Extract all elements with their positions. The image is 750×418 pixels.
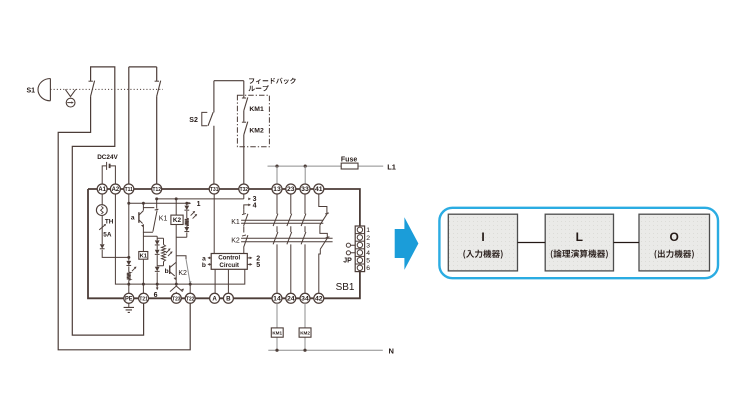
svg-text:2: 2 — [366, 235, 370, 242]
svg-text:N: N — [389, 346, 394, 355]
svg-text:K2: K2 — [178, 270, 187, 277]
svg-text:I: I — [481, 230, 484, 244]
svg-text:41: 41 — [315, 186, 323, 193]
svg-text:4: 4 — [253, 203, 257, 210]
svg-text:K1: K1 — [140, 254, 148, 260]
svg-text:L: L — [576, 230, 583, 244]
svg-text:K2: K2 — [173, 217, 182, 224]
svg-text:L1: L1 — [387, 162, 396, 171]
svg-text:B: B — [226, 296, 231, 303]
svg-text:a: a — [131, 215, 135, 222]
svg-text:42: 42 — [315, 296, 323, 303]
svg-text:A: A — [212, 296, 217, 303]
svg-text:Fuse: Fuse — [341, 157, 357, 164]
svg-text:14: 14 — [273, 296, 281, 303]
svg-text:KM2: KM2 — [300, 331, 310, 336]
svg-text:5: 5 — [256, 262, 260, 269]
svg-text:TH: TH — [105, 219, 114, 226]
svg-text:33: 33 — [301, 186, 309, 193]
svg-text:5A: 5A — [103, 232, 112, 239]
svg-text:DC24V: DC24V — [97, 154, 118, 161]
svg-text:24: 24 — [287, 296, 295, 303]
svg-text:PE: PE — [125, 296, 133, 303]
svg-text:b: b — [165, 268, 169, 275]
svg-text:KM1: KM1 — [272, 331, 282, 336]
svg-text:K1: K1 — [159, 216, 168, 223]
svg-text:34: 34 — [301, 296, 309, 303]
svg-text:S1: S1 — [27, 88, 36, 95]
svg-text:K2: K2 — [231, 237, 240, 244]
svg-text:T12: T12 — [153, 187, 161, 193]
svg-text:b: b — [202, 262, 206, 269]
svg-text:6: 6 — [366, 265, 370, 272]
svg-text:S2: S2 — [189, 117, 198, 124]
svg-text:1: 1 — [366, 227, 370, 234]
svg-text:K1: K1 — [231, 219, 240, 226]
svg-text:5: 5 — [366, 258, 370, 265]
svg-text:KM2: KM2 — [249, 128, 264, 135]
svg-text:JP: JP — [343, 257, 352, 264]
svg-text:A1: A1 — [98, 186, 106, 193]
svg-text:T11: T11 — [125, 187, 133, 193]
svg-text:4: 4 — [366, 250, 370, 257]
svg-text:O: O — [670, 230, 679, 244]
svg-text:Control: Control — [218, 255, 240, 262]
svg-text:SB1: SB1 — [336, 282, 355, 293]
svg-text:13: 13 — [273, 186, 281, 193]
svg-text:Circuit: Circuit — [219, 262, 239, 269]
svg-text:T22: T22 — [186, 297, 194, 303]
svg-text:T21: T21 — [139, 297, 147, 303]
svg-text:A2: A2 — [112, 186, 120, 193]
svg-text:1: 1 — [197, 201, 201, 208]
svg-text:T31: T31 — [210, 187, 218, 193]
svg-text:3: 3 — [366, 242, 370, 249]
svg-text:KM1: KM1 — [249, 106, 264, 113]
svg-text:23: 23 — [287, 186, 295, 193]
svg-text:T23: T23 — [172, 297, 180, 303]
svg-text:6: 6 — [154, 292, 158, 299]
svg-text:T32: T32 — [240, 187, 248, 193]
